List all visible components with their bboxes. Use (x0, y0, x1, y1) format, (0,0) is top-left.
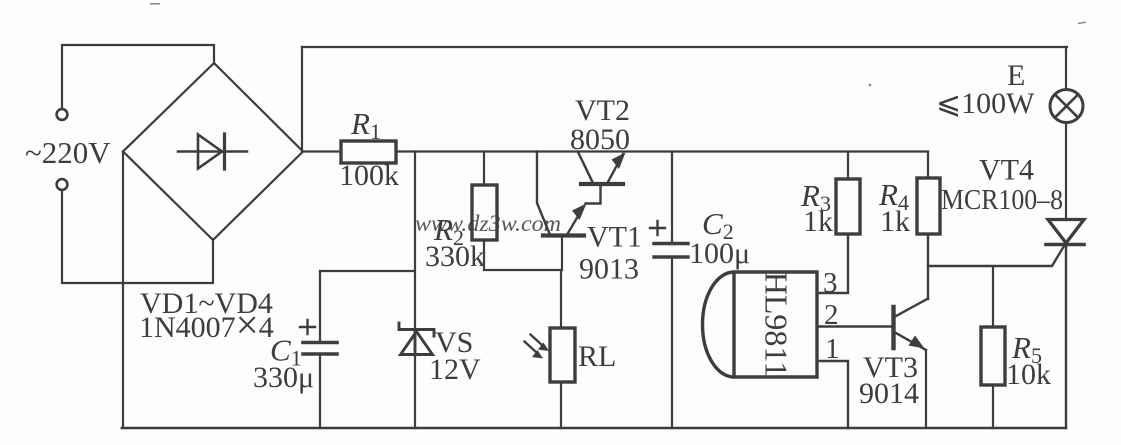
IC pin 2 wire (to VT3 base) (817, 325, 891, 327)
IC pin 3 wire (817, 234, 848, 293)
svg-text:2: 2 (824, 299, 839, 331)
svg-text:www.dz3w.com: www.dz3w.com (415, 211, 561, 236)
svg-text:1k: 1k (880, 205, 910, 238)
VT3 collector (896, 299, 928, 317)
wire R5 bottom lead (992, 385, 994, 428)
thyristor gate wire (928, 246, 1064, 266)
main rail (R1 right to R4) (396, 150, 928, 152)
bridge diode symbol (178, 134, 247, 169)
photoresistor RL (550, 328, 575, 382)
wire zener to bottom rail (414, 355, 416, 428)
VT1 emitter with arrow (568, 204, 587, 234)
wire bridge right vertex up to top rail (301, 47, 303, 152)
VT3 emitter lead down (925, 350, 927, 428)
wire node x415 down to zener (414, 152, 416, 331)
wire R2 bottom lead to VT1 base node (484, 240, 561, 270)
thyristor VT4 (1046, 220, 1084, 245)
wire R4 top lead (927, 152, 929, 179)
resistor R2 (472, 185, 497, 240)
svg-text:8050: 8050 (570, 123, 630, 156)
wire C1 branch horizontal (320, 270, 415, 272)
svg-text:⩽100W: ⩽100W (936, 87, 1035, 120)
VT2 base elbow from VT1 emitter (586, 186, 601, 204)
top rail (302, 46, 1067, 48)
wire C1 bottom lead (319, 354, 321, 428)
resistor R5 (981, 327, 1005, 385)
svg-text:330μ: 330μ (253, 361, 314, 394)
wire bridge left vertex down to bottom rail (122, 152, 124, 429)
lamp E (1050, 90, 1083, 123)
svg-text:330k: 330k (425, 240, 485, 273)
svg-text:RL: RL (578, 340, 616, 373)
svg-text:9014: 9014 (859, 377, 919, 410)
svg-text:100μ: 100μ (689, 237, 750, 270)
wire C2 bottom lead (671, 257, 673, 428)
VT3 emitter with arrow (896, 333, 926, 350)
wire thyristor cathode to bottom rail (1065, 245, 1067, 429)
RL light arrows (525, 335, 550, 359)
VT2 emitter with arrow (608, 153, 626, 183)
wire VT1 collector (537, 152, 550, 234)
wire C2 top lead (671, 152, 673, 244)
bottom rail (122, 427, 1066, 430)
wire right vertex to R1 (303, 150, 341, 152)
IC pin 1 wire (817, 361, 848, 428)
wire R4 bottom lead down to VT3 collector (927, 234, 929, 299)
capacitor C1 (303, 343, 337, 355)
wire R2 top lead (483, 152, 485, 186)
svg-text:3: 3 (823, 267, 838, 299)
wire RL top lead (560, 270, 562, 328)
wire T1 to bridge top vertex (62, 45, 214, 109)
terminal T2 (AC input bottom) (57, 179, 68, 190)
transistor VT3 base bar (891, 307, 895, 348)
wire lamp to thyristor (1065, 123, 1067, 221)
resistor R4 (917, 178, 940, 234)
IC U1 HL9811 body (703, 272, 818, 377)
wire T2 to bridge bottom vertex (62, 190, 213, 283)
svg-text:MCR100–8: MCR100–8 (941, 184, 1063, 216)
speck noise (150, 3, 1086, 313)
terminal T1 (AC input top) (57, 109, 68, 120)
svg-text:~220V: ~220V (25, 135, 111, 170)
svg-text:9013: 9013 (579, 253, 639, 286)
svg-text:VT1: VT1 (587, 221, 642, 254)
wire R3 top lead (847, 152, 849, 180)
zener diode VS (399, 323, 434, 355)
transistor VT1 base bar (543, 233, 584, 237)
wire R5 top lead (992, 266, 994, 327)
transistor VT2 base bar (581, 182, 623, 186)
wire RL bottom lead (560, 382, 562, 428)
wire C1 top lead (319, 271, 321, 342)
svg-text:HL9811: HL9811 (759, 272, 795, 377)
wire top rail to lamp (1065, 47, 1067, 90)
svg-text:12V: 12V (429, 353, 481, 386)
resistor R3 (836, 179, 860, 234)
svg-text:VT4: VT4 (979, 154, 1034, 187)
VT2 collector (578, 152, 593, 182)
resistor R1 (341, 141, 396, 163)
C1 plus sign (300, 320, 315, 334)
svg-text:10k: 10k (1006, 358, 1051, 391)
bridge rectifier VD1~VD4 diamond (123, 63, 303, 240)
svg-text:100k: 100k (339, 159, 399, 192)
svg-text:1: 1 (825, 333, 840, 365)
VT1 base lead down (561, 238, 563, 270)
C2 plus sign (650, 221, 665, 235)
svg-text:1k: 1k (803, 205, 833, 238)
capacitor C2 (654, 244, 688, 258)
